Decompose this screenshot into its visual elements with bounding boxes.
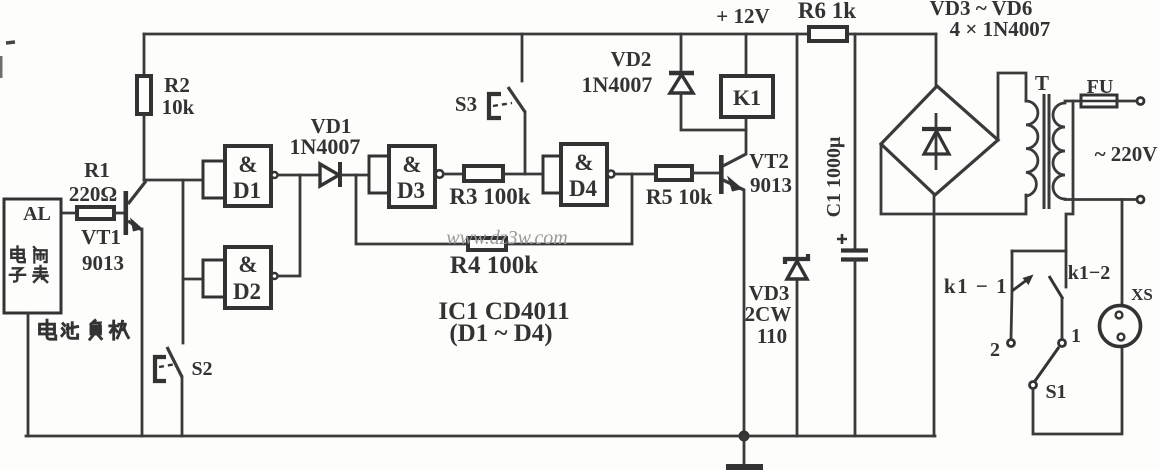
label IC1 CD4011 (438, 298, 569, 325)
svg-text:R3 100k: R3 100k (449, 184, 530, 209)
label CN zi biao row2 (10, 266, 48, 282)
box AL electronic alarm clock (4, 199, 61, 313)
label k1-1 (944, 274, 1008, 298)
resistor R5 (656, 166, 692, 180)
resistor R6 (809, 27, 847, 41)
label VD3~VD6 (930, 0, 1033, 20)
scan speck top left (6, 42, 15, 43)
label 4x1N4007 (950, 17, 1051, 41)
svg-text:9013: 9013 (750, 173, 792, 197)
diode VD2 (669, 34, 746, 130)
label R5 10k (646, 184, 713, 209)
wire VT2 collector to K1 (745, 117, 748, 154)
wire R5 to VT2 base (692, 172, 720, 175)
wire live spine down to contacts (1066, 101, 1073, 251)
label 220V (1095, 142, 1158, 166)
diode VD1 (320, 162, 340, 187)
label T (1035, 71, 1049, 95)
label R1 (84, 158, 110, 182)
switch S3 (489, 34, 525, 174)
wire AL box to R1 (61, 212, 77, 215)
svg-text:(D1 ~ D4): (D1 ~ D4) (449, 320, 552, 347)
label k1-2 (1068, 262, 1111, 284)
op-amp U1 NAND gate D1 (203, 146, 278, 206)
label 110 (757, 324, 787, 348)
label AL (23, 203, 51, 225)
label 10k R2 (162, 95, 195, 119)
label 9013 VT1 (82, 251, 124, 275)
svg-text:D4: D4 (569, 176, 598, 201)
wire fuse to 220V terminal (1117, 100, 1137, 103)
svg-text:2: 2 (990, 339, 1000, 361)
label CN battery negative (40, 320, 129, 339)
svg-text:VT2: VT2 (749, 149, 789, 173)
label VD2 (611, 47, 652, 71)
resistor R4 (468, 238, 506, 250)
svg-text:&: & (238, 252, 257, 277)
wire VD1 to D3 input (342, 174, 369, 177)
svg-text:R4 100k: R4 100k (450, 252, 538, 279)
svg-text:+ 12V: + 12V (716, 4, 769, 28)
wire R4 feedback branch (356, 174, 632, 244)
wire bridge left AC input (881, 144, 1026, 214)
svg-text:D1: D1 (233, 178, 261, 203)
svg-text:XS: XS (1131, 285, 1153, 304)
op-amp U2 NAND gate D2 (203, 247, 278, 308)
label contact 2 (990, 339, 1000, 361)
wire R2 bottom to collector node (143, 114, 146, 180)
label 220ohm (69, 182, 117, 206)
wire D2 input stub (183, 278, 203, 281)
node 220V bottom terminal (1137, 196, 1144, 203)
relay K1 (721, 34, 773, 117)
wire D2 output riser (278, 175, 300, 276)
label D1~D4 (449, 320, 552, 347)
label R4 100k (450, 252, 538, 279)
label S1 (1045, 381, 1066, 403)
label VD1 (311, 114, 352, 138)
resistor R3 (464, 166, 503, 181)
svg-text:D2: D2 (233, 279, 261, 304)
svg-text:2CW: 2CW (745, 302, 792, 326)
svg-text:R5 10k: R5 10k (646, 184, 713, 209)
label +12V (716, 4, 769, 28)
scan speck left edge (0, 56, 3, 78)
svg-text:~ 220V: ~ 220V (1095, 142, 1158, 166)
wire AL box bottom to ground rail (27, 313, 30, 436)
zener diode VD3 2CW110 (785, 34, 808, 436)
label S2 (191, 358, 212, 380)
label R6 1k (798, 0, 856, 23)
svg-text:1: 1 (1071, 325, 1081, 347)
wire bridge bottom to ground rail (933, 195, 936, 436)
node ground junction dot (739, 431, 750, 442)
label XS (1131, 285, 1153, 304)
transformer T (1026, 94, 1065, 209)
resistor R1 (77, 207, 124, 219)
ground (726, 436, 763, 470)
label R3 100k (449, 184, 530, 209)
fuse FU (1081, 95, 1117, 107)
wire VT1 emitter to ground rail (141, 229, 144, 436)
label S3 (455, 92, 477, 116)
label VT2 (749, 149, 789, 173)
wire D3 output to R3 (444, 173, 465, 176)
bridge rectifier VD3-VD6 (881, 34, 998, 195)
switch k1-2 relay contact (1049, 251, 1066, 347)
label contact 1 (1071, 325, 1081, 347)
label VT1 (81, 225, 121, 249)
svg-text:T: T (1035, 71, 1049, 95)
wire D4 output to R5 (615, 173, 657, 176)
wire bottom ground rail (26, 435, 935, 438)
svg-text:9013: 9013 (82, 251, 124, 275)
svg-text:www.dz3w.com: www.dz3w.com (446, 227, 568, 249)
svg-text:1N4007: 1N4007 (290, 134, 361, 159)
capacitor C1 (837, 34, 868, 436)
svg-text:R2: R2 (164, 73, 190, 97)
wire top +12V rail (144, 33, 936, 36)
svg-text:K1: K1 (733, 85, 761, 110)
svg-text:&: & (402, 152, 421, 177)
transistor VT2 (719, 154, 746, 194)
svg-text:4 × 1N4007: 4 × 1N4007 (950, 17, 1051, 41)
node 220V top terminal (1137, 98, 1144, 105)
label C1 1000u (823, 136, 845, 217)
wire primary top to fuse (1065, 100, 1081, 103)
svg-text:VD2: VD2 (611, 47, 652, 71)
svg-text:AL: AL (23, 203, 51, 225)
wire collector node to D1 input (144, 179, 203, 182)
svg-text:&: & (574, 150, 593, 175)
wire R3 to D4 input (503, 173, 543, 176)
label R2 (164, 73, 190, 97)
op-amp U4 NAND gate D4 (543, 144, 615, 205)
wire contact rail (1012, 250, 1066, 253)
svg-text:VT1: VT1 (81, 225, 121, 249)
label 2CW (745, 302, 792, 326)
op-amp U3 NAND gate D3 (369, 146, 443, 207)
switch k1-1 relay contact (1008, 251, 1034, 347)
node A collector junction (182, 180, 185, 343)
socket XS (1100, 200, 1141, 347)
label 1N4007 VD1 (290, 134, 361, 159)
svg-text:R1: R1 (84, 158, 110, 182)
label 1N4007 VD2 (582, 72, 653, 97)
label 9013 VT2 (750, 173, 792, 197)
svg-text:S1: S1 (1045, 381, 1066, 403)
svg-text:S3: S3 (455, 92, 477, 116)
svg-text:k1 − 1: k1 − 1 (944, 274, 1008, 298)
wire bridge right AC input (998, 73, 1026, 140)
svg-text:110: 110 (757, 324, 787, 348)
wire 220V neutral line (1065, 198, 1137, 201)
wire VT2 emitter to ground (743, 190, 746, 436)
svg-text:D3: D3 (397, 178, 425, 203)
svg-text:220Ω: 220Ω (69, 182, 117, 206)
svg-text:10k: 10k (162, 95, 195, 119)
svg-text:C1 1000μ: C1 1000μ (823, 136, 845, 217)
wire D1 output (278, 174, 320, 177)
svg-text:FU: FU (1087, 76, 1114, 98)
svg-text:&: & (238, 152, 257, 177)
resistor R2 (137, 76, 151, 114)
switch S2 (155, 347, 182, 436)
switch S1 (1030, 347, 1123, 434)
transistor VT1 (124, 181, 147, 235)
label K1 (733, 85, 761, 110)
watermark (446, 227, 568, 249)
svg-text:k1−2: k1−2 (1068, 262, 1111, 284)
label FU (1087, 76, 1114, 98)
label CN dian naoclock row1 (11, 246, 46, 262)
svg-text:1N4007: 1N4007 (582, 72, 653, 97)
wire R2 top riser (143, 34, 146, 76)
label VD3 (749, 281, 790, 305)
svg-text:R6 1k: R6 1k (798, 0, 856, 23)
svg-text:S2: S2 (191, 358, 212, 380)
